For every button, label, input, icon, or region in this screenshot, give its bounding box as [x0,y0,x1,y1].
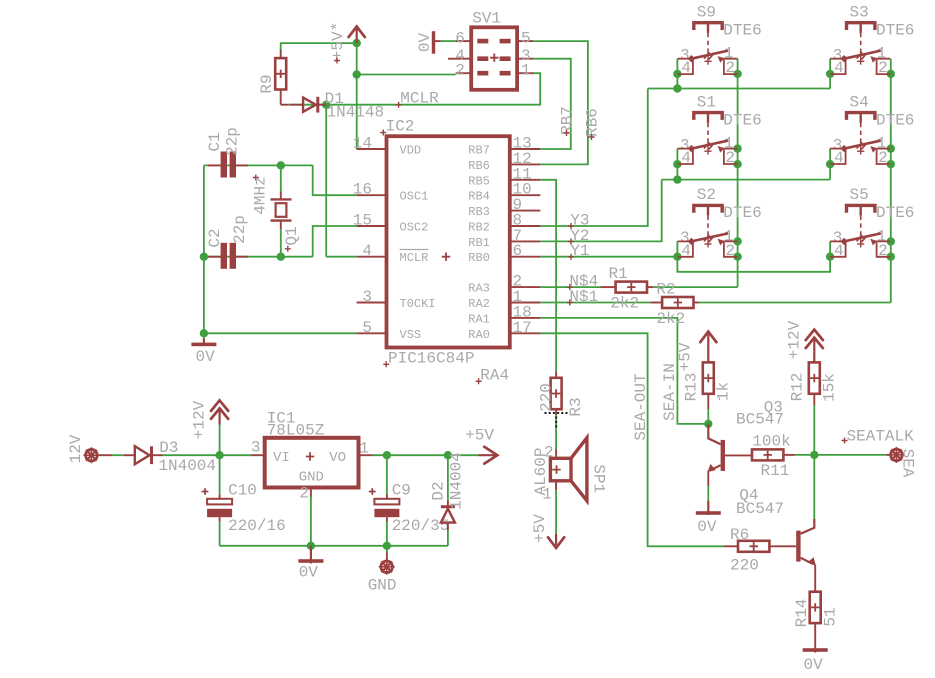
wire R13 to Q3 collector node [707,409,709,424]
svg-text:C10: C10 [228,482,257,500]
wire net SEA-OUT (IC2 pin17 to R6) [540,333,724,546]
svg-text:+5V: +5V [677,342,695,371]
svg-text:S5: S5 [850,186,869,204]
svg-text:R1: R1 [609,265,628,283]
resistor R9 [258,50,289,105]
pad GND under C9 [368,553,397,595]
svg-text:GND: GND [368,576,397,594]
svg-text:2: 2 [299,485,309,503]
svg-text:RB6: RB6 [584,108,602,137]
svg-text:2: 2 [725,59,735,77]
svg-text:SEATALK: SEATALK [847,428,915,446]
svg-text:+5V: +5V [531,514,549,543]
svg-text:R2: R2 [656,280,675,298]
svg-text:RB3: RB3 [468,205,490,219]
svg-text:S1: S1 [697,93,716,111]
svg-text:OSC1: OSC1 [400,190,429,204]
svg-text:+5V*: +5V* [329,22,347,60]
svg-text:RA3: RA3 [468,282,490,296]
wire switch column right group S3/S4/S5 verticals [830,59,891,303]
resistor R2 2k2 [650,280,699,328]
svg-text:16: 16 [353,181,372,199]
svg-text:SV1: SV1 [472,10,501,28]
junction dots supply section [215,451,223,459]
pad 12V input [67,434,112,463]
svg-text:78L05Z: 78L05Z [267,422,325,440]
svg-text:R11: R11 [761,462,790,480]
svg-text:C2: C2 [206,228,224,247]
speaker SP1 AL60P [532,438,608,504]
svg-text:5: 5 [362,319,372,337]
label Y3 net [568,211,590,229]
label Y2 net [568,227,590,245]
svg-text:2: 2 [725,242,735,260]
wire IC1 pin2 to 0V [310,497,312,546]
supply symbol 0V under IC1 [298,546,323,582]
svg-text:R12: R12 [789,373,807,402]
switch S9 (DTE6 pushbutton) [677,4,761,78]
svg-text:220: 220 [538,383,556,412]
svg-text:0V: 0V [416,33,434,53]
svg-text:12V: 12V [67,434,85,463]
svg-text:RA4: RA4 [480,366,509,384]
svg-text:+12V: +12V [786,320,804,359]
svg-text:4: 4 [834,149,844,167]
wire key row 1 bus [648,88,830,90]
svg-text:5: 5 [521,29,531,47]
IC IC1 78L05Z regulator [251,410,373,503]
svg-text:1: 1 [359,440,369,458]
svg-text:DTE6: DTE6 [876,21,914,39]
svg-text:OSC2: OSC2 [400,221,429,235]
svg-text:4: 4 [681,242,691,260]
supply symbol 0V at SV1 pin6 [416,31,441,54]
resistor R11 100k [752,433,795,480]
switch S2 (DTE6 pushbutton) [677,186,761,260]
svg-text:22p: 22p [231,215,249,244]
wire net 0V at SV1 pin6 [441,40,456,42]
svg-text:100k: 100k [752,433,790,451]
wire net RB5 to R3 / speaker chain [540,180,556,534]
svg-text:VSS: VSS [400,328,422,342]
wire MCLR net [289,73,541,257]
diode D2 1N4004 [430,452,466,530]
svg-text:R6: R6 [730,526,749,544]
svg-text:S9: S9 [697,4,716,22]
svg-text:SEA: SEA [899,449,917,478]
svg-text:RA0: RA0 [468,328,490,342]
resistor R1 2k2 [601,265,654,312]
label N$4 net [567,273,598,291]
resistor R3 220 [538,372,586,417]
svg-text:2k2: 2k2 [610,294,639,312]
svg-text:Q1: Q1 [283,226,301,245]
switch S3 (DTE6 pushbutton) [830,4,914,78]
wire net Y1 (IC2 pin6 to key row 3) [540,256,677,258]
svg-text:BC547: BC547 [736,500,784,518]
wire key row 3 bus [677,241,830,271]
svg-text:VI: VI [273,450,290,466]
svg-text:0V: 0V [196,348,216,366]
svg-text:MCLR: MCLR [400,90,439,108]
svg-text:R14: R14 [793,599,811,628]
svg-text:S2: S2 [697,186,716,204]
resistor R6 220 [724,526,796,574]
svg-text:6: 6 [455,30,465,48]
svg-text:RB0: RB0 [468,251,490,265]
resistor R14 51 [793,592,840,650]
wire net N$1 (IC2 pin1 - R2 - right key columns) [540,302,891,304]
svg-text:+5V: +5V [465,427,494,445]
svg-text:3: 3 [362,288,372,306]
svg-text:R3: R3 [567,397,585,416]
svg-text:PIC16C84P: PIC16C84P [388,350,474,368]
svg-text:4: 4 [834,242,844,260]
transistor Q4 BC547 [736,486,816,591]
svg-text:2: 2 [725,149,735,167]
svg-text:VDD: VDD [400,144,422,158]
label RB6 net [584,108,602,140]
wire +5V net (top left rail) [281,43,456,149]
wire net N$4 (IC2 pin2 - R1 - left key columns) [540,286,737,288]
wire oscillator node OSC2 / C2 / Q1 bottom [204,226,357,257]
switch S5 (DTE6 pushbutton) [830,186,914,260]
capacitor C9 220/35 electrolytic [369,482,449,535]
diode D3 1N4004 [124,439,216,475]
svg-text:DTE6: DTE6 [876,204,914,222]
svg-text:220: 220 [730,557,759,575]
svg-text:2k2: 2k2 [656,310,685,328]
svg-text:AL60P: AL60P [532,447,550,495]
svg-text:22p: 22p [224,127,242,156]
svg-text:2: 2 [455,62,465,80]
svg-text:RB6: RB6 [468,159,490,173]
junction dots key matrix left columns [673,70,681,78]
svg-text:R13: R13 [683,373,701,402]
capacitor C1 22p [206,127,248,177]
svg-text:VO: VO [329,450,346,466]
svg-text:R9: R9 [258,74,276,93]
junction dot MCLR/D1 [322,101,330,109]
wire net RB7 (SV1 pin3 to IC2 pin13) [533,59,571,149]
switch S1 (DTE6 pushbutton) [677,93,761,167]
supply symbol 0V at Q3 emitter [696,501,721,536]
svg-text:S4: S4 [850,93,869,111]
supply symbol +5V right arrow at regulator output [465,427,497,464]
svg-text:RB7: RB7 [559,106,577,135]
wire C10 branch [219,455,221,546]
svg-text:SP1: SP1 [589,464,607,493]
wire SEATALK node [795,405,887,519]
wire net SEA-IN (IC2 pin18 to Q3 collector node) [540,318,708,424]
supply symbol 0V at VSS [191,339,216,367]
svg-text:15k: 15k [821,373,839,402]
wire Q3 emitter to 0V [707,486,709,501]
svg-text:4: 4 [681,59,691,77]
label MCLR net [396,90,440,108]
svg-text:T0CKI: T0CKI [400,297,436,311]
wire +5V output rail of IC1 [373,454,479,456]
svg-text:15: 15 [353,212,372,230]
svg-text:S3: S3 [850,4,869,22]
wire net Y2 (IC2 pin7 to key row 2) [540,180,661,242]
connector SV1 (2x3 header) [448,10,533,90]
supply symbol +5V top-left with arrow [329,22,365,64]
svg-text:D2: D2 [430,481,448,500]
svg-text:3: 3 [251,438,261,456]
svg-text:C1: C1 [206,132,224,151]
svg-text:1N4148: 1N4148 [327,103,385,121]
wire net RB6 (SV1 pin5 to IC2 pin12) [533,41,588,164]
svg-text:220/35: 220/35 [392,517,450,535]
wire GND/0V left column [204,165,357,338]
svg-text:C9: C9 [392,482,411,500]
junction dots +5V top rail [353,39,361,47]
junction dot Q3 collector node [704,420,712,428]
svg-text:14: 14 [353,135,372,153]
wire +12V stem [219,425,221,456]
svg-text:DTE6: DTE6 [723,111,761,129]
supply symbol +5V below speaker (down arrow) [531,514,564,548]
pad SEATALK output [842,428,917,478]
supply symbol +5V above R13 [677,332,717,372]
wire oscillator node OSC1 / C1 / Q1 top [204,165,357,195]
diode D1 1N4148 [290,90,384,121]
svg-text:1: 1 [521,61,531,79]
svg-text:D3: D3 [159,439,178,457]
svg-text:RB4: RB4 [468,190,490,204]
wire key row 2 bus [662,179,830,181]
junction dot VSS 0V [200,329,208,337]
IC IC2 PIC16C84P [353,118,541,385]
junction dot SEATALK node [810,451,818,459]
label RB7 net [559,106,577,136]
supply symbol +12V above R12 [786,320,823,362]
capacitor C2 22p [206,215,249,269]
svg-text:4MHz: 4MHz [252,176,270,214]
svg-text:4: 4 [681,149,691,167]
svg-text:DTE6: DTE6 [723,204,761,222]
svg-text:4: 4 [834,59,844,77]
svg-text:RB5: RB5 [468,174,490,188]
wire C9 branch [386,455,388,552]
svg-text:RB2: RB2 [468,221,490,235]
svg-text:2: 2 [878,242,888,260]
supply symbol 0V under R14 [803,648,828,674]
dotted marker below R3 [545,412,568,427]
svg-text:RB1: RB1 [468,236,490,250]
svg-text:51: 51 [822,607,840,626]
supply symbol +12V at IC1 input [191,400,229,439]
wire 12V input to IC1 VI [112,454,251,456]
junction dots key matrix right columns [826,70,834,78]
svg-text:6: 6 [513,242,523,260]
svg-text:1N4004: 1N4004 [447,452,465,510]
svg-text:+12V: +12V [191,400,209,439]
svg-text:2: 2 [878,59,888,77]
transistor Q3 BC547 [707,398,784,486]
svg-text:17: 17 [513,319,532,337]
svg-text:RA2: RA2 [468,297,490,311]
svg-text:N$1: N$1 [569,288,598,306]
svg-text:DTE6: DTE6 [723,21,761,39]
wire D2 branch [447,455,449,546]
svg-text:MCLR: MCLR [400,251,429,265]
svg-text:220/16: 220/16 [228,517,286,535]
resistor R12 15k [789,362,839,405]
svg-text:0V: 0V [804,656,824,674]
wire switch column left group S9/S1/S2 verticals [677,59,737,287]
svg-text:IC2: IC2 [386,118,415,136]
svg-text:1k: 1k [715,382,733,401]
svg-text:0V: 0V [299,564,319,582]
switch S4 (DTE6 pushbutton) [830,93,914,167]
svg-text:RB7: RB7 [468,144,490,158]
svg-text:2: 2 [878,149,888,167]
label N$1 net [567,288,598,306]
svg-text:BC547: BC547 [736,411,784,429]
svg-text:SEA-OUT: SEA-OUT [632,373,650,440]
wire ground rail under IC1 [220,545,448,547]
svg-text:DTE6: DTE6 [876,111,914,129]
label Y1 net [568,242,590,260]
svg-text:RA1: RA1 [468,312,490,326]
junction dots oscillator [277,161,285,169]
wire net Y3 (IC2 pin8 to key row 1) [540,89,648,227]
svg-text:4: 4 [362,242,372,260]
svg-text:1N4004: 1N4004 [158,457,216,475]
resistor R13 1k [683,362,733,409]
crystal Q1 4MHz [252,175,301,252]
capacitor C10 220/16 electrolytic [202,482,286,535]
svg-text:GND: GND [299,470,324,486]
svg-text:0V: 0V [697,518,717,536]
